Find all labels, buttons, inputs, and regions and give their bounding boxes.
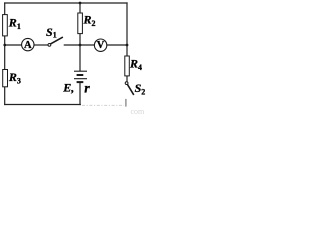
resistor R1	[3, 15, 8, 36]
wire voltmeter to right	[107, 44, 127, 46]
svg-text:com: com	[131, 107, 146, 116]
wire R4 to S2	[126, 76, 128, 82]
wire R4 top	[126, 45, 128, 56]
wire bottom dashed	[82, 104, 124, 106]
wire R2 top	[79, 3, 81, 13]
wire top	[5, 2, 127, 4]
wire middle left	[5, 44, 22, 46]
wire ammeter to S1	[34, 44, 48, 46]
svg-text:E,: E,	[62, 80, 74, 94]
wire S1 to voltmeter	[64, 44, 94, 46]
node junction right-middle	[126, 44, 129, 47]
resistor R2	[78, 13, 83, 34]
wire S2 stub	[125, 99, 127, 107]
wire R2 bottom	[79, 34, 81, 45]
switch S1	[48, 37, 63, 46]
wire right upper	[126, 3, 128, 45]
svg-text:r: r	[84, 82, 90, 97]
resistor R4	[125, 56, 130, 76]
wire left	[4, 3, 6, 105]
wire bottom solid	[5, 104, 81, 106]
voltmeter V1	[94, 39, 106, 51]
svg-text:V: V	[97, 40, 105, 51]
node junction R2-top	[79, 2, 82, 5]
wire battery top	[79, 45, 81, 71]
resistor R3	[3, 70, 8, 87]
switch S2	[125, 82, 134, 95]
node junction left-middle	[3, 44, 6, 47]
wire battery bottom	[79, 82, 81, 104]
ammeter A1	[22, 38, 34, 51]
node junction battery-middle	[79, 44, 82, 47]
svg-text:A: A	[24, 40, 32, 51]
battery E r	[74, 71, 87, 82]
